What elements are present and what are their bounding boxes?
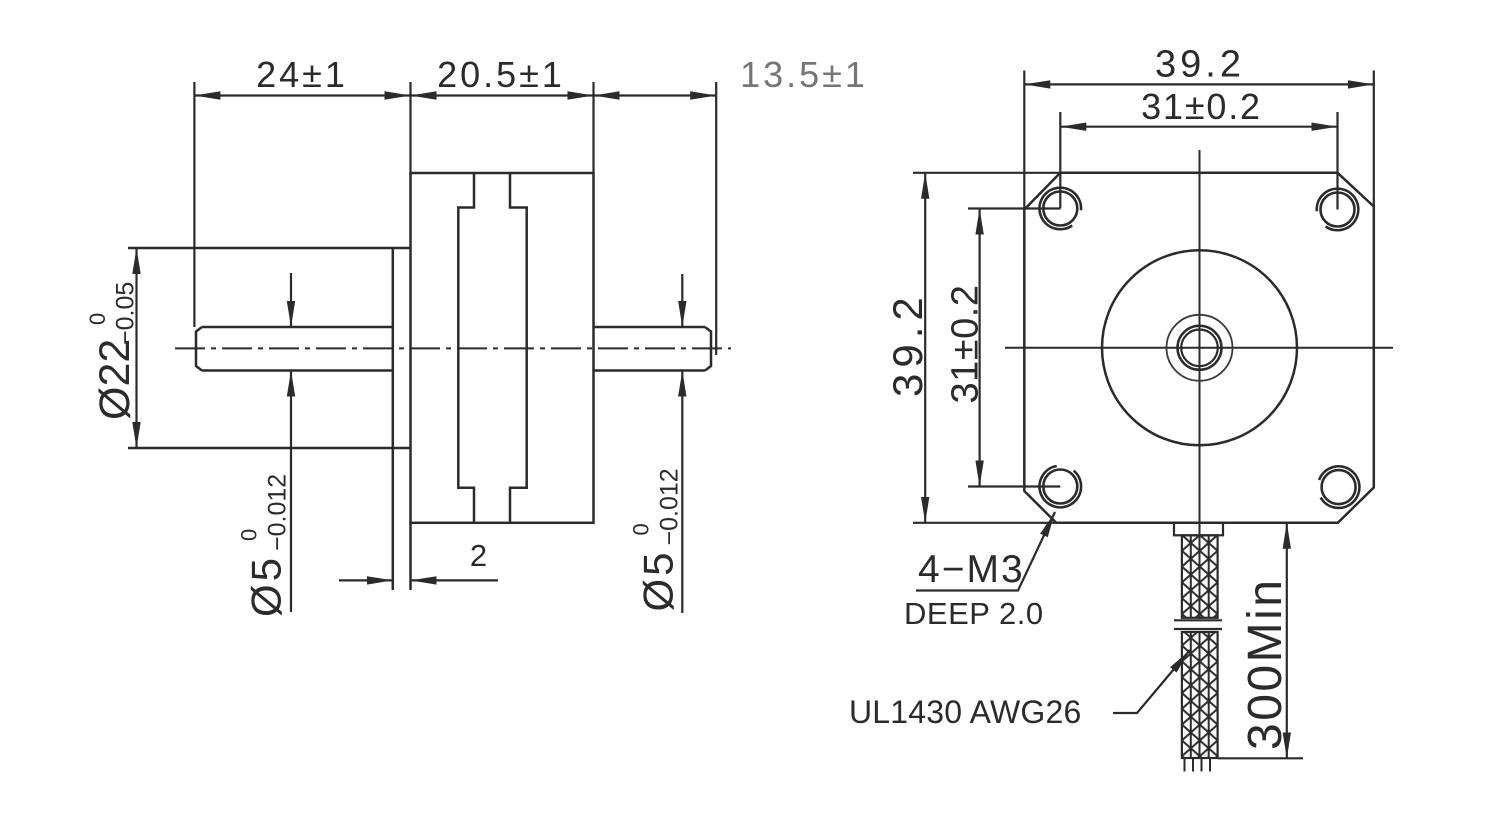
svg-text:Ø5: Ø5 xyxy=(635,549,682,611)
svg-text:300Min: 300Min xyxy=(1239,578,1292,750)
top dimension 31±0.2 xyxy=(1060,112,1337,210)
internal slot left profile xyxy=(458,173,474,523)
left lead line with arrow xyxy=(339,579,393,581)
pilot boss circle Ø22 xyxy=(1102,250,1297,445)
svg-text:24±1: 24±1 xyxy=(256,54,348,95)
svg-text:39.2: 39.2 xyxy=(1155,44,1245,86)
front flange bottom edge + dim extension xyxy=(128,447,411,450)
left shaft top edge xyxy=(202,326,393,329)
svg-text:39.2: 39.2 xyxy=(884,291,931,397)
bolt hole top-right (M3) xyxy=(1317,189,1359,231)
bolt hole bottom-left (M3) xyxy=(1039,466,1081,507)
lower arrow line xyxy=(681,371,683,614)
cable break lines xyxy=(1174,619,1222,621)
extension line x=593.5 xyxy=(592,82,594,173)
left shaft end face xyxy=(196,327,202,371)
Ø22 dimension xyxy=(135,248,137,448)
label Ø5 0/-0.012 left (rotated) xyxy=(237,474,292,617)
shaft centerline xyxy=(175,347,731,349)
label Ø5 0/-0.012 right (rotated) xyxy=(629,468,684,611)
cable connector block xyxy=(1174,523,1223,536)
extension line x=410.5 xyxy=(409,82,411,173)
flange front face vertical (extends down as ext line for 2 dim) xyxy=(392,248,395,590)
right shaft bottom edge xyxy=(594,369,706,372)
label Ø22 0/-0.05 (rotated) xyxy=(85,282,140,420)
right lead line with arrow xyxy=(411,579,499,581)
svg-text:−0.012: −0.012 xyxy=(264,474,292,551)
dim text 39.2 (rotated) xyxy=(884,291,931,397)
dim line 20.5±1 xyxy=(411,94,594,96)
cable lower braided section xyxy=(1182,632,1218,758)
svg-text:31±0.2: 31±0.2 xyxy=(945,285,987,404)
svg-text:0: 0 xyxy=(85,313,110,325)
bolt hole top-left (M3) xyxy=(1039,188,1081,230)
300Min dimension xyxy=(1218,523,1303,759)
svg-text:−0.05: −0.05 xyxy=(112,282,140,345)
motor body outline xyxy=(411,173,594,523)
dim line Ø22 xyxy=(135,248,137,448)
svg-text:0: 0 xyxy=(237,529,262,541)
Ø5 left callout xyxy=(290,273,292,612)
svg-text:Ø5: Ø5 xyxy=(243,555,290,617)
upper arrow line xyxy=(290,273,292,327)
left shaft bottom edge xyxy=(202,369,393,372)
front flange top edge + dim extension xyxy=(128,247,411,250)
svg-text:Ø22: Ø22 xyxy=(91,339,139,420)
left vertical dimension 31±0.2 xyxy=(968,209,1060,487)
svg-text:−0.012: −0.012 xyxy=(656,468,684,545)
shaft circle Ø5 xyxy=(1178,326,1222,370)
cable upper braided section xyxy=(1182,535,1218,618)
center cross lines xyxy=(1005,347,1393,349)
extension line x=194 xyxy=(193,82,195,327)
dimension 2 (flange thickness) xyxy=(339,579,498,581)
svg-text:2: 2 xyxy=(470,538,487,573)
internal slot right profile xyxy=(510,173,527,523)
upper arrow line xyxy=(681,274,683,327)
svg-text:DEEP 2.0: DEEP 2.0 xyxy=(904,596,1044,631)
4-M3 leader line xyxy=(916,512,1055,591)
body left edge extension for 2 dim xyxy=(409,523,412,590)
right shaft top edge xyxy=(594,326,706,329)
dim line 13.5±1 xyxy=(594,94,717,96)
UL1430 leader line xyxy=(1113,650,1190,713)
svg-text:20.5±1: 20.5±1 xyxy=(437,54,565,95)
svg-text:13.5±1: 13.5±1 xyxy=(740,54,868,95)
bolt hole bottom-right (M3) xyxy=(1319,466,1359,508)
svg-text:0: 0 xyxy=(629,523,654,535)
svg-text:UL1430 AWG26: UL1430 AWG26 xyxy=(849,694,1081,730)
square flange outline with corner chamfers xyxy=(1024,173,1374,523)
left vertical dimension 39.2 xyxy=(913,173,1060,523)
wire ends xyxy=(1185,758,1211,772)
dim text 300Min (rotated) xyxy=(1239,578,1292,750)
top dimension 39.2 xyxy=(1024,71,1374,210)
dim line 24±1 xyxy=(194,94,410,96)
Ø5 right callout xyxy=(681,274,683,613)
svg-text:31±0.2: 31±0.2 xyxy=(1141,86,1262,127)
right shaft end face xyxy=(705,327,711,371)
extension line x=716 xyxy=(715,82,717,355)
svg-text:4−M3: 4−M3 xyxy=(918,548,1025,591)
inner ring circle xyxy=(1167,315,1233,381)
shaft chamfer circle xyxy=(1181,330,1218,367)
dim text 31±0.2 (rotated) xyxy=(945,285,987,404)
center line through cable xyxy=(1199,523,1201,618)
top dimensions of left view xyxy=(194,82,716,355)
lower arrow line xyxy=(290,371,292,613)
